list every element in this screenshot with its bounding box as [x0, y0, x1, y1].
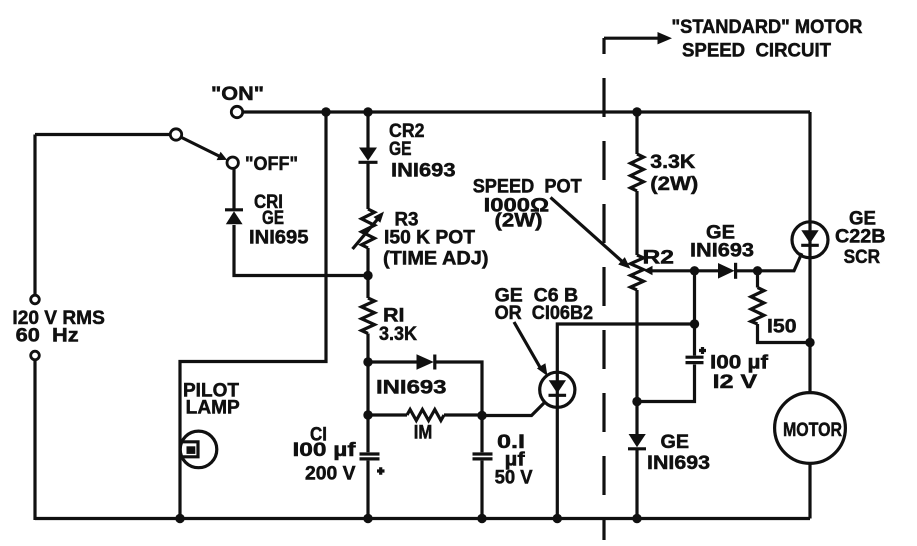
terminal OFF circle	[227, 157, 238, 168]
SCR C22B circle	[792, 222, 828, 258]
diode GE 1N1693 (shunt) triangle	[629, 434, 646, 447]
svg-text:LAMP: LAMP	[186, 398, 240, 419]
junction dot node R3-R1	[363, 271, 372, 280]
svg-text:INI693: INI693	[391, 161, 456, 182]
svg-text:60 Hz: 60 Hz	[16, 326, 79, 347]
svg-text:OR CI06B2: OR CI06B2	[495, 303, 593, 324]
wire R2 pot bottom down to 1N1693 shunt diode	[635, 290, 638, 434]
svg-text:I2 V: I2 V	[713, 372, 758, 393]
junction dot bottom rail C1	[363, 514, 372, 523]
junction dot top rail x326	[321, 107, 330, 116]
wire OFF terminal down to CR1 cathode	[232, 168, 235, 209]
junction dot top rail x637	[632, 107, 641, 116]
svg-text:200 V: 200 V	[305, 464, 356, 485]
speed pot label pointer line	[551, 197, 626, 264]
terminal ON circle	[231, 106, 242, 117]
svg-text:(2W): (2W)	[495, 211, 543, 232]
wire left rail upper segment	[33, 135, 36, 296]
wire riser node to 1N1693 anode	[695, 269, 719, 272]
switch blade from pivot to OFF terminal	[181, 137, 222, 158]
R3 rheostat arrow line	[353, 218, 380, 250]
wire 150 resistor branch from node down then right to cathode line	[756, 271, 759, 288]
svg-text:SCR: SCR	[844, 247, 881, 268]
diode GE 1N1693 (gate feed) cathode bar	[734, 263, 737, 279]
wire top rail from ON switch to top-right corner	[243, 110, 811, 113]
potentiometer R2 zigzag	[631, 255, 644, 290]
svg-text:MOTOR: MOTOR	[783, 420, 842, 441]
wire 1N1693 cathode right then down to 1M node	[435, 362, 483, 416]
R2 wiper arrowhead	[644, 266, 653, 276]
wire pilot-lamp branch: from top rail down, left, down to bottom rail	[180, 112, 326, 519]
pilot lamp filament bracket	[181, 442, 198, 457]
junction dot bottom rail C6B cathode	[553, 514, 562, 523]
resistor 3.3K (2W) zigzag	[631, 154, 644, 191]
wire R2 wiper to riser node	[650, 269, 695, 272]
wire 0.1uf bottom plate to bottom rail	[480, 461, 483, 519]
wire C6B anode up, right across dashed line to riser	[557, 324, 694, 372]
wire left rail lower segment	[33, 360, 36, 520]
SCR C22B triangle	[801, 230, 818, 243]
R3 rheostat arrowhead	[374, 212, 385, 223]
wire motor bottom to bottom rail	[808, 463, 811, 519]
wire speed-pot chain: top rail down to 3.3K	[635, 112, 638, 154]
junction dot top rail x368	[363, 107, 372, 116]
svg-text:INI693: INI693	[376, 378, 447, 399]
SCR C6B cathode bar	[549, 394, 567, 397]
svg-text:GE: GE	[389, 139, 412, 160]
wire shunt diode cathode to bottom rail	[635, 449, 638, 519]
svg-text:C22B: C22B	[835, 227, 886, 248]
diode GE 1N1693 (gate feed) triangle	[718, 263, 735, 279]
wire node to 1N1693 anode	[368, 360, 417, 363]
svg-text:IM: IM	[414, 423, 433, 444]
svg-text:R2: R2	[643, 248, 675, 269]
svg-text:INI693: INI693	[647, 453, 710, 474]
wire C1 bottom plate to bottom rail	[366, 461, 369, 519]
wire 3.3K bottom to R2 pot top	[635, 191, 638, 255]
svg-text:I50 K POT: I50 K POT	[384, 228, 475, 249]
arrow line to STANDARD MOTOR SPEED CIRCUIT	[604, 37, 660, 40]
svg-text:I50: I50	[767, 317, 797, 338]
capacitor 100uf top plate	[686, 356, 704, 359]
motor circle	[775, 393, 846, 464]
svg-text:SPEED CIRCUIT: SPEED CIRCUIT	[682, 41, 831, 62]
C6B label pointer arrowhead	[537, 363, 548, 376]
diode 1N1693 (timing) triangle	[417, 354, 434, 369]
resistor 150 zigzag	[751, 288, 764, 325]
diode GE 1N1693 (shunt) cathode bar	[628, 447, 646, 450]
dashed partition line	[602, 38, 605, 540]
capacitor 100uf plus sign	[699, 347, 706, 354]
terminal switch pivot circle	[170, 129, 181, 140]
wire C6B gate: from 1M node right then diagonal to gate	[482, 403, 544, 416]
wire top-left horizontal to switch pivot	[35, 133, 171, 136]
junction dot node 1M left	[363, 410, 372, 419]
svg-text:GE: GE	[262, 208, 284, 229]
svg-text:3.3K: 3.3K	[650, 152, 695, 173]
wire 0.1uf branch: node down to cap top plate	[480, 416, 483, 453]
switch blade arrowhead at OFF	[217, 152, 228, 160]
svg-text:50 V: 50 V	[495, 468, 533, 489]
wire CR1 anode down and right to node R3-R1	[234, 225, 368, 276]
terminal 120V lower circle	[31, 351, 40, 360]
svg-text:"OFF": "OFF"	[245, 154, 298, 175]
svg-text:"ON": "ON"	[211, 84, 264, 105]
diode CR2 cathode bar	[359, 161, 378, 164]
pilot lamp filament blob	[187, 446, 196, 454]
svg-text:INI693: INI693	[690, 241, 754, 262]
svg-text:GE: GE	[661, 432, 690, 453]
capacitor C1 top plate	[360, 452, 380, 455]
SCR C22B inner wire	[808, 223, 811, 258]
capacitor 0.1uf top plate	[473, 452, 493, 455]
junction dot 150-cathode line	[805, 338, 814, 347]
wire right rail down to C22B anode	[808, 112, 811, 222]
svg-text:(TIME ADJ): (TIME ADJ)	[383, 249, 489, 270]
diode CR1 triangle	[226, 211, 243, 224]
wire C1 branch: node down to C1 top plate	[366, 362, 369, 452]
resistor 1M zigzag	[407, 410, 444, 421]
capacitor 100uf bottom plate	[686, 361, 704, 364]
junction dot node 1M right	[477, 411, 486, 420]
svg-text:3.3K: 3.3K	[379, 324, 417, 345]
svg-text:INI695: INI695	[249, 228, 309, 249]
diode 1N1693 (timing) cathode bar	[433, 355, 436, 370]
junction dot bottom rail shunt diode	[632, 514, 641, 523]
wire 100uf bottom plate down then left to pot bottom line	[637, 365, 695, 402]
wire R3 bottom through node to R1 top	[366, 248, 369, 298]
wire bottom rail	[35, 517, 810, 520]
junction dot 100uf-pot bottom	[632, 397, 641, 406]
potentiometer R3 zigzag	[362, 209, 375, 248]
junction dot bottom rail 0.1uf	[477, 514, 486, 523]
junction dot node R1 bottom	[363, 357, 372, 366]
wire C22B cathode down to motor	[808, 258, 811, 393]
wire 150 bottom right to cathode line	[758, 324, 811, 343]
svg-text:(2W): (2W)	[650, 174, 698, 195]
resistor R1 3.3K zigzag	[362, 298, 375, 334]
terminal 120V upper circle	[31, 295, 40, 304]
SCR C22B cathode bar	[801, 244, 819, 247]
capacitor 0.1uf bottom plate	[473, 457, 493, 460]
junction dot bottom rail lamp	[175, 514, 184, 523]
wire R1 bottom to diode node	[366, 334, 369, 363]
C6B label pointer line	[514, 322, 541, 369]
junction dot wiper node	[690, 266, 699, 275]
SCR C6B inner wire	[556, 373, 559, 406]
speed pot label pointer arrowhead	[618, 257, 630, 269]
wire node to 1M resistor left	[368, 413, 407, 416]
wire CR2 anode to R3 top	[366, 163, 369, 210]
wire 1M resistor right to node	[444, 413, 482, 416]
wire C6B cathode to bottom rail	[556, 407, 559, 518]
junction dot anode tee	[690, 319, 699, 328]
wire 1N1693 cathode to gate bend of C22B	[736, 253, 802, 271]
diode CR2 triangle	[359, 148, 377, 161]
capacitor C1 plus sign	[377, 467, 385, 474]
diode CR1 cathode bar	[225, 208, 243, 211]
svg-text:I00 µf: I00 µf	[710, 353, 769, 374]
junction dot gate-feed node	[753, 266, 762, 275]
capacitor C1 bottom plate	[360, 457, 380, 460]
wire top rail to CR2 cathode	[366, 112, 369, 148]
svg-text:"STANDARD" MOTOR: "STANDARD" MOTOR	[672, 17, 863, 38]
wire riser: wiper node down through 100uf to bottom corner	[693, 271, 696, 356]
SCR C6B circle	[540, 372, 575, 407]
SCR C6B triangle	[549, 380, 566, 393]
arrowhead STANDARD	[658, 32, 673, 44]
pilot lamp circle	[180, 431, 217, 468]
svg-text:I00 µf: I00 µf	[293, 440, 357, 461]
